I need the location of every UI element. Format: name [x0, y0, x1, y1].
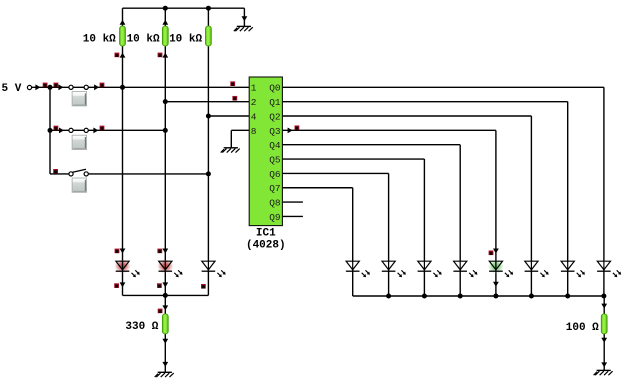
current arrow row1 a: [35, 84, 40, 90]
svg-text:(4028): (4028): [246, 239, 286, 251]
resistor R4 330: [162, 314, 168, 334]
wire top ground rail: [123, 7, 245, 9]
ground 330 ohm: [155, 372, 174, 377]
terminal 5V: [27, 85, 31, 89]
svg-text:Q3: Q3: [269, 126, 281, 137]
node R2-pin2: [163, 99, 168, 104]
pin label Q4: [269, 140, 281, 151]
pin label Q7: [269, 183, 280, 194]
current arrow above R2: [162, 20, 168, 25]
pin label Q3: [269, 126, 281, 137]
wire IC output Q4: [282, 145, 460, 296]
wire right LED rail: [353, 295, 605, 297]
svg-text:Q0: Q0: [269, 83, 281, 94]
current arrow below 100: [601, 338, 607, 343]
resistor R2: [162, 26, 168, 46]
node R1-row1: [120, 85, 125, 90]
svg-text:10 kΩ: 10 kΩ: [127, 34, 160, 46]
current arrow row2 a: [59, 127, 64, 133]
node 5V-branch: [48, 85, 53, 90]
LED output Q2 off: [525, 261, 549, 277]
wire 5V branch vertical: [49, 87, 51, 174]
LED output Q1 off: [561, 261, 585, 277]
wire IC output Q1: [282, 102, 567, 296]
svg-text:IC1: IC1: [256, 228, 276, 240]
op-amp IC1 body: [249, 77, 282, 226]
pin indicator Q3 out: [295, 125, 300, 130]
pin label Q0: [269, 83, 281, 94]
pin number 1: [251, 83, 257, 94]
current arrow 100 ground: [601, 362, 607, 367]
pin label Q5: [269, 154, 281, 165]
pin number 2: [251, 97, 257, 108]
pin indicator below R2: [158, 53, 163, 58]
current arrow row2 b: [93, 127, 98, 133]
label R1 10k: [83, 34, 116, 46]
current arrow above LED1: [120, 249, 126, 254]
wire R3 column: [207, 8, 209, 295]
node rail-Q3: [493, 294, 498, 299]
pin indicator above LED2: [157, 249, 162, 254]
current arrow below 330: [162, 339, 168, 344]
node leftrail-330: [163, 293, 168, 298]
pin label Q6: [269, 169, 281, 180]
node rail-Q4: [458, 294, 463, 299]
current arrow row1 b: [58, 84, 63, 90]
current arrow above LED2: [162, 249, 168, 254]
node S2-R2: [163, 128, 168, 133]
LED output Q5 off: [418, 261, 442, 277]
pin indicator below LED2: [157, 283, 162, 288]
pin label Q9: [269, 212, 281, 223]
LED output Q6 off: [382, 261, 406, 277]
wire IC pin 2 row: [165, 101, 249, 103]
node rail-Q6: [386, 294, 391, 299]
pin indicator row1 b: [54, 83, 59, 88]
LED D2 red lit: [158, 260, 183, 277]
svg-text:2: 2: [251, 97, 257, 108]
pin indicator IC pin2: [232, 96, 237, 101]
label 100 ohm: [566, 322, 599, 334]
svg-text:Q2: Q2: [269, 111, 281, 122]
current arrow above LED Q3: [493, 249, 499, 254]
pin number 4: [251, 111, 257, 122]
pin indicator row2 b: [100, 126, 105, 131]
wire IC pin Q8 stub: [282, 201, 303, 203]
pin indicator row2 a: [54, 126, 59, 131]
pin indicator above 330: [158, 309, 163, 314]
node rail-Q1: [565, 294, 570, 299]
wire IC output Q2: [282, 116, 531, 296]
wire IC output Q6: [282, 173, 388, 296]
pin indicator row3: [53, 169, 58, 174]
resistor R1: [120, 26, 126, 46]
wire switch S2 row: [50, 129, 165, 131]
svg-text:8: 8: [251, 126, 257, 137]
node rail-Q5: [422, 294, 427, 299]
pin indicator below R1: [115, 53, 120, 58]
svg-text:Q8: Q8: [269, 198, 281, 209]
switch S1 button: [72, 92, 87, 106]
wire IC output Q0: [282, 87, 604, 296]
wire IC pin 4 row: [208, 115, 249, 117]
current arrow below R2: [162, 53, 168, 58]
pin indicator IC pin1: [230, 81, 235, 86]
wire left LED rail: [123, 294, 209, 296]
current arrow above R1: [120, 20, 126, 25]
LED output Q4 off: [453, 261, 477, 277]
switch S2 button: [72, 135, 87, 149]
label 330 ohm: [125, 321, 158, 333]
label 5V: [2, 83, 22, 95]
switch S3 button: [72, 178, 87, 192]
svg-text:Q5: Q5: [269, 154, 281, 165]
switch S3 lever: [73, 169, 86, 172]
wire R1 column: [122, 8, 124, 295]
svg-text:Q7: Q7: [269, 183, 280, 194]
pin indicator below LED3: [201, 284, 206, 289]
svg-text:100 Ω: 100 Ω: [566, 322, 599, 334]
svg-text:Q1: Q1: [269, 97, 281, 108]
wire 100 ohm column: [603, 296, 605, 370]
ground 100 ohm: [594, 370, 613, 375]
node toprail-R3: [206, 6, 211, 11]
LED output Q7 off: [346, 261, 370, 277]
pin indicator above LED Q3: [489, 251, 494, 256]
LED output Q3 green lit: [489, 260, 514, 277]
current arrow Q3 out: [288, 127, 293, 133]
current arrow top ground: [242, 16, 248, 21]
wire 5V row to IC pin 1: [32, 86, 250, 88]
node S2-branch: [48, 128, 53, 133]
pin indicator row1 c: [100, 83, 105, 88]
wire 330 ohm column: [164, 295, 166, 372]
svg-text:4: 4: [251, 111, 257, 122]
label IC1: [256, 228, 276, 240]
ground top rail: [234, 26, 253, 31]
wire switch S3 row: [50, 173, 208, 175]
svg-text:Q6: Q6: [269, 169, 281, 180]
node S3-R3: [206, 171, 211, 176]
current arrow below LED2: [162, 282, 168, 287]
svg-text:1: 1: [251, 83, 257, 94]
svg-text:10 kΩ: 10 kΩ: [169, 34, 202, 46]
ground IC pin8: [221, 148, 240, 153]
pin indicator above LED1: [115, 249, 120, 254]
current arrow above 330: [162, 305, 168, 310]
label R2 10k: [127, 34, 160, 46]
LED output Q0 off: [597, 261, 621, 277]
wire IC pin Q9 stub: [282, 215, 303, 217]
svg-text:Q4: Q4: [269, 140, 281, 151]
svg-text:330 Ω: 330 Ω: [125, 321, 158, 333]
switch S3 contacts: [69, 172, 88, 176]
LED D3 off: [202, 261, 226, 277]
pin label Q1: [269, 97, 281, 108]
svg-text:Q9: Q9: [269, 212, 281, 223]
current arrow row1 c: [94, 84, 99, 90]
current arrow above 100: [601, 304, 607, 309]
label IC1 type 4028: [246, 239, 286, 251]
node toprail-R2: [163, 6, 168, 11]
resistor R5 100: [601, 314, 607, 334]
pin indicator row1 a: [43, 83, 48, 88]
svg-text:10 kΩ: 10 kΩ: [83, 34, 116, 46]
pin indicator below LED1: [114, 283, 119, 288]
wire IC output Q7: [282, 188, 352, 296]
LED D1 red lit: [115, 260, 140, 277]
node R3-pin4: [206, 114, 211, 119]
current arrow below R1: [120, 53, 126, 58]
pin label Q8: [269, 198, 281, 209]
current arrow below LED1: [120, 282, 126, 287]
label R3 10k: [169, 34, 202, 46]
switch S2 contacts: [69, 128, 88, 132]
svg-text:5 V: 5 V: [2, 83, 22, 95]
pin number 8: [251, 126, 257, 137]
node rail-Q2: [529, 294, 534, 299]
wire R2 column: [164, 8, 166, 295]
current arrow 330 ground: [162, 362, 168, 367]
wire top ground drop: [243, 8, 245, 26]
wire IC pin 8 to ground: [231, 130, 249, 147]
wire IC output Q3: [282, 130, 496, 296]
resistor R3: [206, 26, 212, 46]
current arrow below LED Q3: [493, 282, 499, 287]
node rail-100ohm: [601, 294, 606, 299]
wire IC output Q5: [282, 159, 424, 296]
pin label Q2: [269, 111, 281, 122]
switch S1 contacts: [69, 85, 88, 89]
